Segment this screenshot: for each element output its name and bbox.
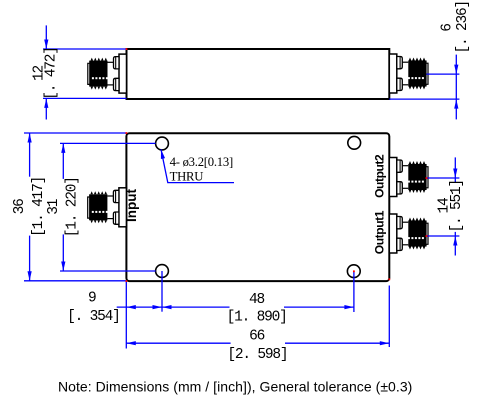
- output1 connector: [389, 214, 428, 253]
- top view body: [127, 49, 390, 99]
- bottom view body: [126, 133, 389, 281]
- mounting hole top-left: [156, 137, 169, 150]
- output2 axis line: [426, 177, 459, 179]
- mounting hole bottom-left: [156, 265, 169, 278]
- svg-text:6: 6: [440, 24, 456, 32]
- dimension 66 [2.598]: [126, 286, 389, 348]
- top view left connector: [88, 54, 127, 93]
- svg-text:[1. 890]: [1. 890]: [227, 310, 287, 326]
- top view right connector: [389, 54, 428, 93]
- dimension 9 [.354] and 48 [1.890]: [117, 271, 354, 349]
- dimension 31 [1.220]: [60, 143, 156, 271]
- dimension 36 [1.417]: [24, 133, 126, 281]
- svg-text:31: 31: [46, 199, 62, 215]
- svg-text:[. 551]: [. 551]: [449, 180, 465, 233]
- svg-text:[1. 220]: [1. 220]: [65, 177, 81, 237]
- output1 axis line: [426, 235, 459, 237]
- svg-text:THRU: THRU: [170, 170, 204, 184]
- svg-text:Output2: Output2: [372, 154, 386, 198]
- svg-text:Note: Dimensions (mm / [inch]): Note: Dimensions (mm / [inch]), General …: [58, 379, 412, 395]
- svg-text:[2. 598]: [2. 598]: [227, 347, 287, 363]
- red snap dots: [126, 48, 428, 282]
- dimension 6 [.236]: [389, 55, 459, 120]
- svg-text:Output1: Output1: [372, 210, 386, 254]
- svg-text:[. 236]: [. 236]: [455, 1, 471, 54]
- mounting hole top-right: [348, 136, 361, 149]
- svg-text:48: 48: [249, 292, 265, 308]
- output2 connector: [389, 158, 428, 197]
- svg-text:9: 9: [88, 291, 96, 307]
- dimension 12 [.472]: [43, 25, 127, 119]
- svg-text:36: 36: [12, 199, 28, 215]
- svg-text:Input: Input: [124, 189, 139, 222]
- hole leader 4- ø3.2[0.13] THRU: [161, 149, 234, 182]
- dimension 14 [.551]: [454, 157, 456, 255]
- svg-text:[1. 417]: [1. 417]: [31, 177, 47, 237]
- mounting hole bottom-right: [347, 265, 360, 278]
- svg-text:[. 354]: [. 354]: [67, 309, 120, 325]
- svg-text:66: 66: [249, 328, 265, 344]
- svg-text:[. 472]: [. 472]: [44, 47, 60, 100]
- input connector: [88, 188, 127, 227]
- svg-text:4- ø3.2[0.13]: 4- ø3.2[0.13]: [170, 155, 233, 169]
